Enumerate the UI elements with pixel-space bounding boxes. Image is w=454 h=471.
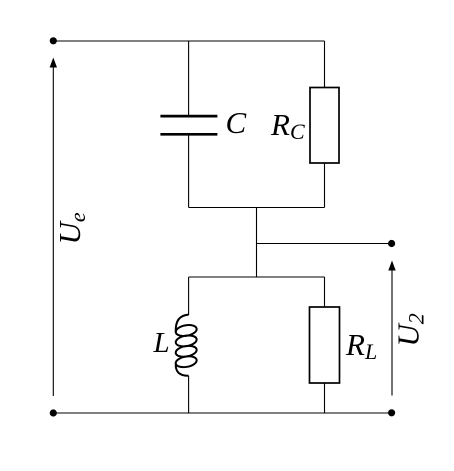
svg-text:RC: RC (270, 107, 305, 144)
resistor RL (310, 307, 340, 383)
svg-text:Ue: Ue (52, 212, 90, 244)
wire inductor branch lower (188, 376, 190, 413)
wire RL branch upper (324, 277, 326, 307)
node output terminal (388, 240, 395, 247)
wire capacitor branch upper (188, 41, 190, 116)
wire capacitor branch lower (188, 135, 190, 208)
svg-text:U2: U2 (391, 313, 429, 346)
wire RC branch lower (324, 163, 326, 208)
wire top horizontal (53, 40, 324, 42)
resistor RC (310, 88, 339, 164)
svg-text:L: L (153, 327, 170, 359)
wire middle lower horizontal (189, 276, 325, 278)
node bottom-right terminal (388, 409, 395, 416)
wire inductor branch upper (188, 277, 190, 315)
arrow U2 (388, 261, 395, 396)
wire RC branch upper (324, 41, 326, 88)
wire middle vertical (256, 208, 258, 278)
svg-text:RL: RL (345, 327, 377, 364)
wire output tap (257, 243, 390, 245)
wire RL branch lower (324, 383, 326, 413)
inductor L (175, 315, 198, 376)
arrow Ue (50, 58, 57, 397)
wire middle upper horizontal (189, 207, 325, 209)
capacitor C (160, 116, 217, 134)
node top-left terminal (50, 37, 57, 44)
node bottom-left terminal (50, 409, 57, 416)
svg-text:C: C (226, 105, 247, 140)
wire bottom horizontal (53, 412, 391, 414)
